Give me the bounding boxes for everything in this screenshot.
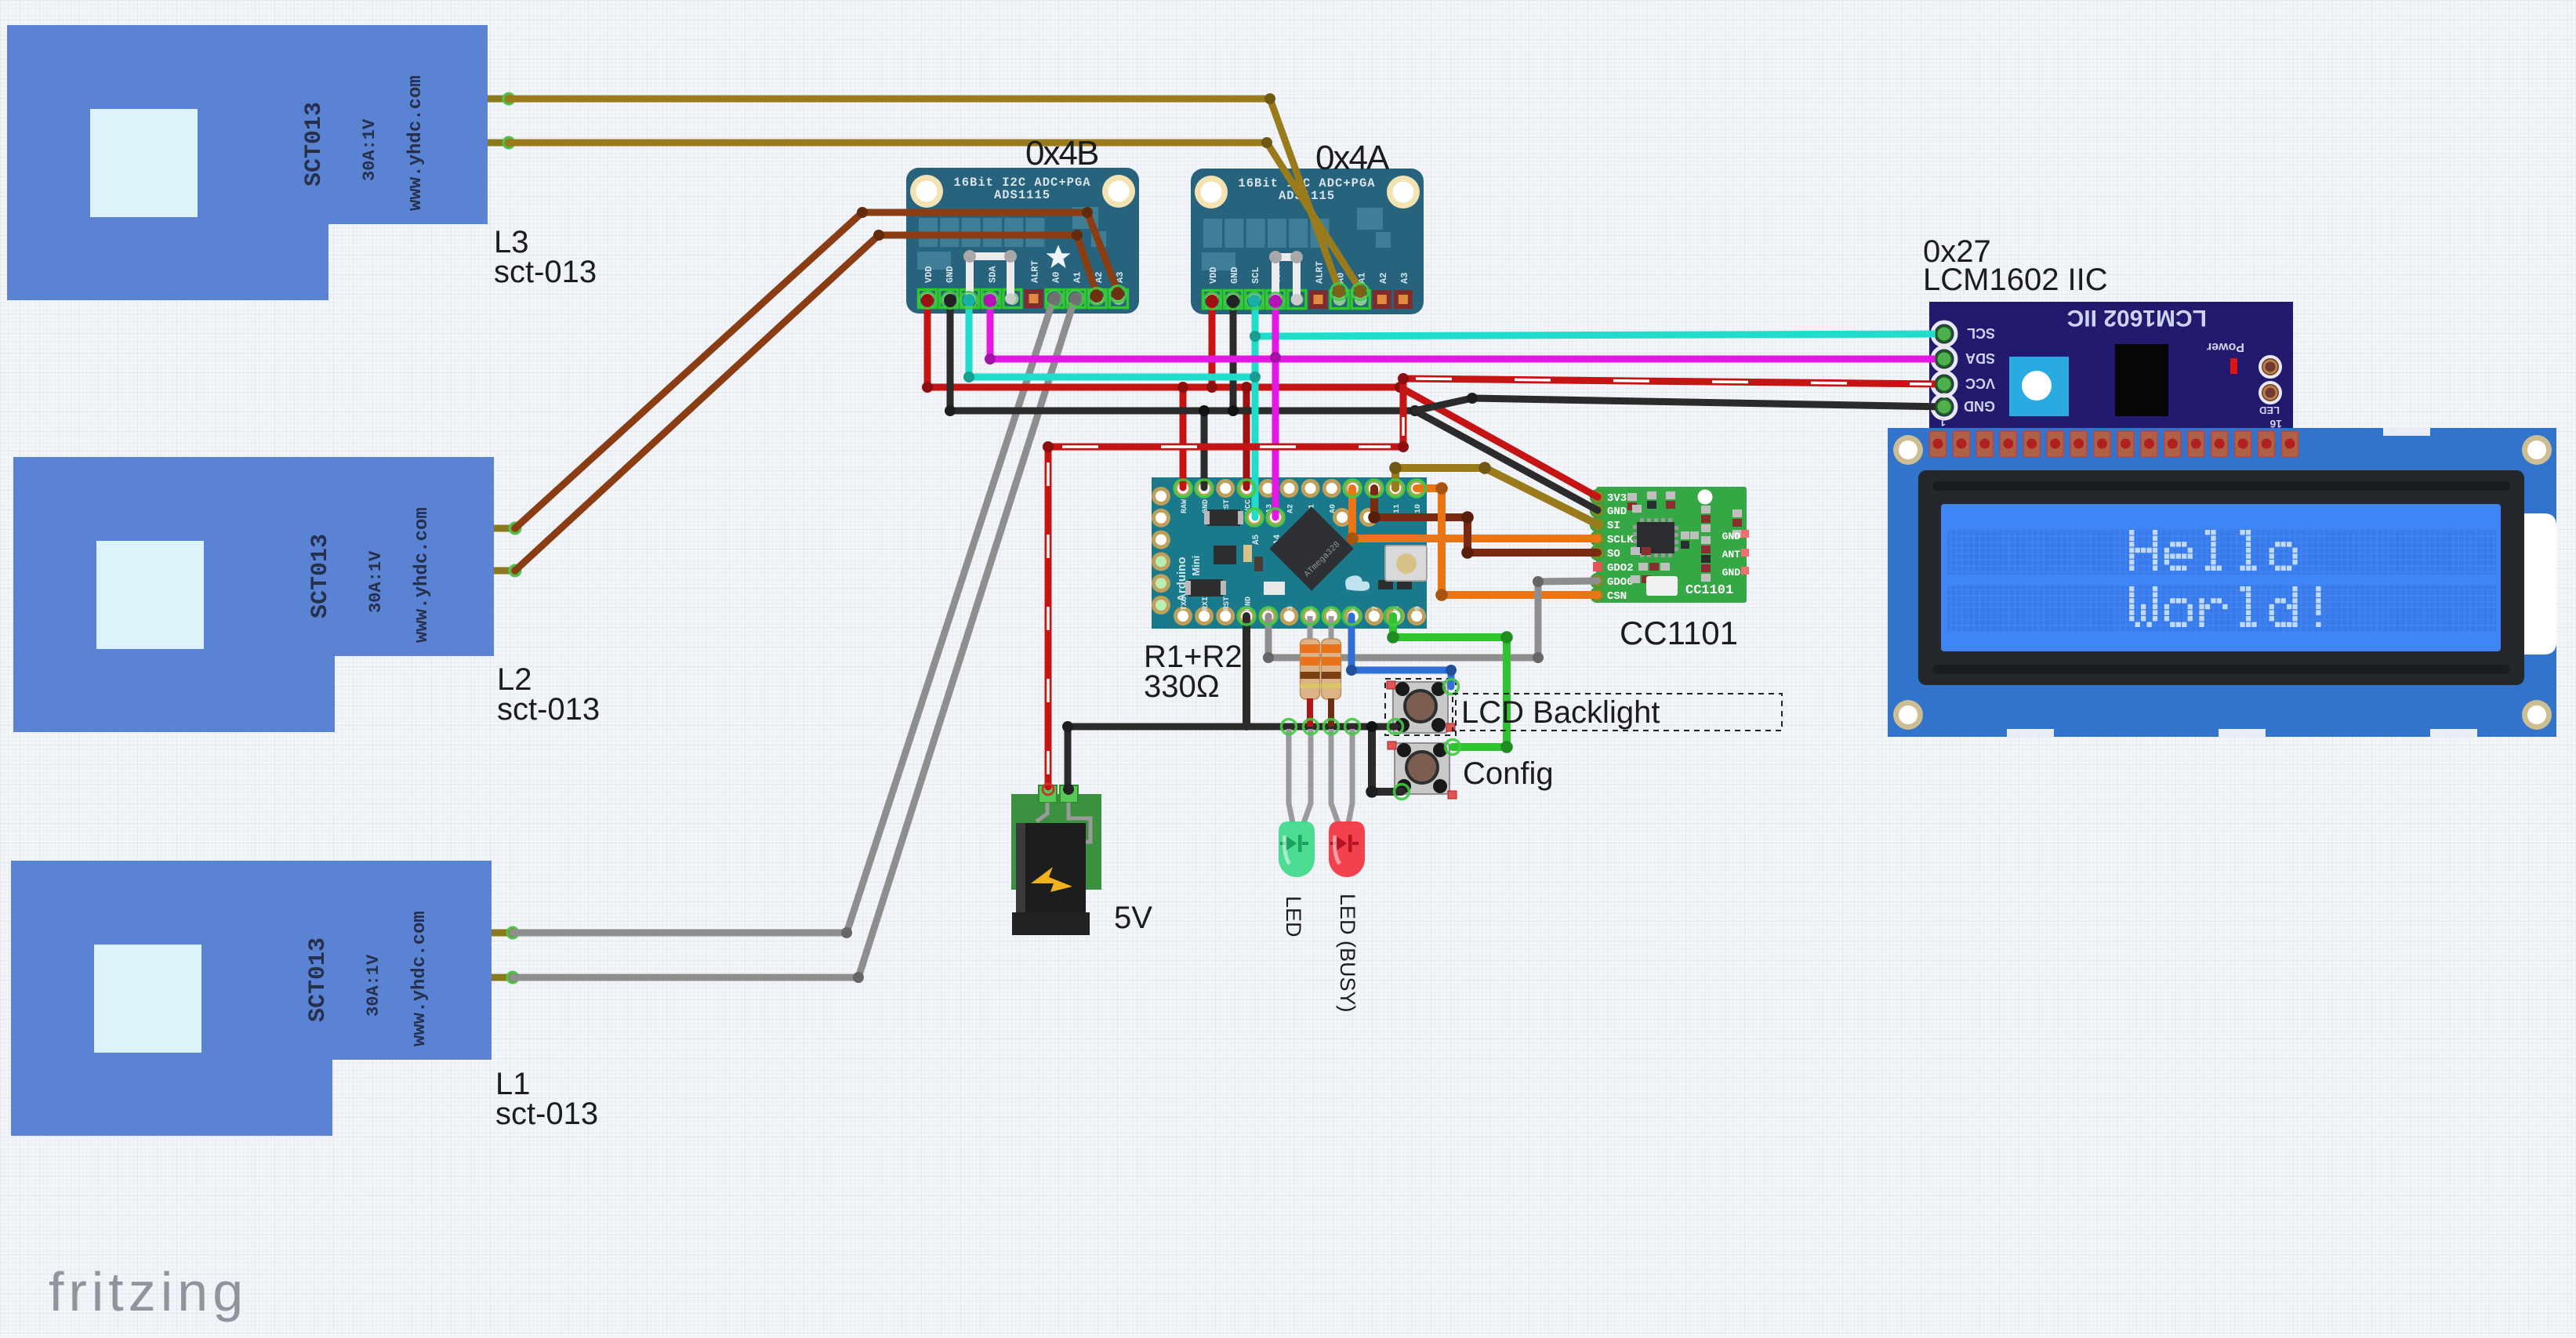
svg-text:ALRT: ALRT (1315, 261, 1326, 284)
svg-text:5V: 5V (1114, 901, 1152, 935)
svg-text:A2: A2 (1378, 273, 1389, 284)
svg-text:LED (BUSY): LED (BUSY) (1336, 894, 1359, 1013)
svg-text:30A:1V: 30A:1V (360, 118, 379, 181)
svg-text:fritzing: fritzing (49, 1261, 248, 1322)
svg-text:LCM1602 IIC: LCM1602 IIC (1923, 263, 2108, 297)
svg-text:A1: A1 (1072, 272, 1083, 283)
svg-text:GND: GND (1722, 567, 1741, 578)
svg-text:ANT: ANT (1722, 549, 1741, 560)
svg-text:3: 3 (1287, 606, 1296, 611)
svg-text:Power: Power (2207, 340, 2244, 354)
svg-text:GND: GND (1722, 531, 1741, 542)
svg-text:A0: A0 (1051, 272, 1062, 283)
svg-text:sct-013: sct-013 (494, 255, 597, 289)
svg-text:9: 9 (1414, 606, 1423, 611)
svg-text:0x4A: 0x4A (1315, 139, 1390, 177)
svg-text:LCD Backlight: LCD Backlight (1461, 695, 1660, 730)
svg-text:A5: A5 (1252, 534, 1261, 545)
svg-text:sct-013: sct-013 (495, 1097, 598, 1131)
svg-text:SO: SO (1607, 548, 1620, 560)
svg-text:ALRT: ALRT (1030, 260, 1041, 283)
svg-text:SCT013: SCT013 (307, 534, 334, 618)
svg-text:SI: SI (1607, 520, 1620, 532)
svg-text:RST: RST (1223, 596, 1232, 611)
svg-text:7: 7 (1372, 606, 1381, 611)
svg-text:VCC: VCC (1965, 375, 1995, 391)
svg-text:ADS1115: ADS1115 (994, 188, 1050, 202)
svg-text:www.yhdc.com: www.yhdc.com (409, 911, 430, 1046)
svg-text:SCT013: SCT013 (301, 102, 328, 187)
svg-text:GDO0: GDO0 (1607, 576, 1634, 589)
svg-text:GND: GND (1229, 267, 1240, 284)
svg-text:Arduino: Arduino (1175, 557, 1188, 603)
svg-text:GND: GND (1607, 506, 1627, 518)
svg-text:A3: A3 (1399, 273, 1410, 284)
svg-text:LED: LED (2259, 404, 2280, 416)
svg-text:CSN: CSN (1607, 590, 1627, 603)
svg-text:0x4B: 0x4B (1025, 134, 1098, 172)
svg-text:10: 10 (1414, 504, 1423, 513)
svg-text:LED: LED (1282, 896, 1305, 937)
svg-text:11: 11 (1393, 504, 1402, 513)
svg-text:CC1101: CC1101 (1620, 615, 1738, 651)
svg-text:30A:1V: 30A:1V (364, 954, 383, 1017)
svg-text:Config: Config (1463, 756, 1554, 791)
svg-text:30A:1V: 30A:1V (366, 550, 386, 613)
svg-text:VDD: VDD (1208, 267, 1219, 284)
svg-text:SCT013: SCT013 (305, 937, 332, 1022)
svg-text:LCM1602 IIC: LCM1602 IIC (2067, 305, 2207, 331)
svg-text:SCL: SCL (1250, 267, 1261, 284)
svg-text:SCL: SCL (1967, 325, 1995, 341)
svg-text:3V3: 3V3 (1607, 492, 1627, 505)
svg-text:GDO2: GDO2 (1607, 562, 1634, 575)
svg-text:SDA: SDA (1965, 350, 1995, 366)
svg-text:www.yhdc.com: www.yhdc.com (412, 507, 433, 643)
svg-text:SCLK: SCLK (1607, 534, 1634, 546)
svg-text:VDD: VDD (923, 266, 934, 283)
svg-text:330Ω: 330Ω (1144, 669, 1220, 704)
svg-text:RXI: RXI (1202, 596, 1210, 611)
svg-text:A2: A2 (1287, 504, 1296, 513)
svg-text:sct-013: sct-013 (497, 692, 600, 727)
svg-text:CC1101: CC1101 (1685, 583, 1733, 598)
svg-text:1: 1 (1939, 416, 1946, 429)
svg-text:GND: GND (945, 266, 956, 283)
svg-text:GND: GND (1964, 398, 1995, 414)
svg-text:RAW: RAW (1181, 499, 1189, 513)
svg-text:www.yhdc.com: www.yhdc.com (405, 75, 426, 211)
svg-text:SDA: SDA (987, 266, 998, 283)
